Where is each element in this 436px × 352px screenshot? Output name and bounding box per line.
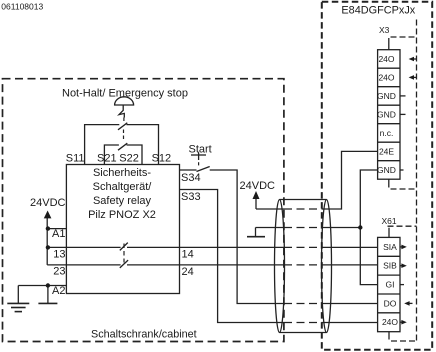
svg-text:GND: GND [377,91,396,101]
svg-text:14: 14 [182,249,194,261]
svg-text:n.c.: n.c. [380,128,394,138]
svg-text:13: 13 [53,249,65,261]
svg-text:24E: 24E [379,146,394,156]
svg-text:SIA: SIA [383,242,397,252]
svg-text:24VDC: 24VDC [30,197,66,209]
svg-text:24: 24 [182,266,194,278]
svg-text:Start: Start [189,144,212,156]
svg-text:S11: S11 [66,153,85,165]
svg-text:A1: A1 [52,228,65,240]
svg-text:GI: GI [386,280,395,290]
svg-text:24O: 24O [382,317,398,327]
svg-text:Not-Halt/ Emergency stop: Not-Halt/ Emergency stop [62,88,188,100]
svg-text:23: 23 [53,266,65,278]
svg-text:061108013: 061108013 [1,2,43,12]
svg-text:S33: S33 [181,191,201,203]
svg-text:Safety relay: Safety relay [93,195,152,207]
svg-text:24O: 24O [378,72,394,82]
svg-text:A2: A2 [52,285,65,297]
svg-text:S12: S12 [152,153,172,165]
svg-text:Sicherheits-: Sicherheits- [93,167,151,179]
svg-text:Schaltschrank/cabinet: Schaltschrank/cabinet [91,329,197,341]
svg-text:GND: GND [377,165,396,175]
svg-text:S21: S21 [97,153,117,165]
svg-text:S22: S22 [119,153,139,165]
svg-text:X61: X61 [382,216,397,226]
svg-text:Pilz PNOZ X2: Pilz PNOZ X2 [88,209,156,221]
svg-text:24VDC: 24VDC [240,180,276,192]
svg-text:E84DGFCPxJx: E84DGFCPxJx [341,5,415,17]
svg-text:Schaltgerät/: Schaltgerät/ [93,181,153,193]
svg-text:DO: DO [384,298,397,308]
svg-text:24O: 24O [378,54,394,64]
svg-text:SIB: SIB [383,261,397,271]
svg-text:GND: GND [377,109,396,119]
svg-text:S34: S34 [181,172,201,184]
svg-text:X3: X3 [379,25,390,35]
